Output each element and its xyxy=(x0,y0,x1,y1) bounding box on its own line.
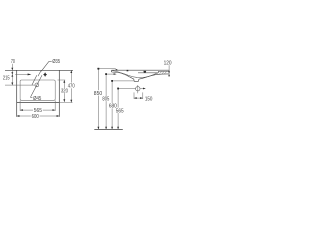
bottom dimension 600 xyxy=(17,115,31,117)
side view: rear hatching xyxy=(157,72,159,74)
svg-text:70: 70 xyxy=(11,59,15,65)
side view: front lip xyxy=(111,70,113,72)
drain centreline xyxy=(5,84,35,86)
side view: outer underside with drain stub xyxy=(112,72,170,81)
extension line to 320 dim xyxy=(58,79,66,81)
svg-text:Ø35: Ø35 xyxy=(52,59,60,65)
side view: deck step xyxy=(157,71,159,72)
tap hole centreline with right arrow xyxy=(15,73,30,75)
height dim 850 xyxy=(97,68,116,70)
side view: deck top line xyxy=(158,70,169,72)
dimension 150 at outlet xyxy=(133,92,135,99)
plan view: outer front edge with extension right xyxy=(17,102,60,104)
height dim 805 xyxy=(106,73,115,75)
right dimension 470 xyxy=(70,70,72,82)
svg-text:805: 805 xyxy=(102,96,109,102)
side view: tick front xyxy=(116,69,118,70)
svg-text:565: 565 xyxy=(116,108,124,114)
plan view: outer left edge with extension down xyxy=(16,70,18,117)
plan view: inner basin rim rounded rectangle xyxy=(20,80,55,100)
floor line xyxy=(94,128,123,130)
drain double slash xyxy=(32,75,37,85)
optional tap hole slash xyxy=(38,71,41,76)
leader for diameter 45 through drain xyxy=(31,75,42,97)
svg-text:320: 320 xyxy=(61,89,68,95)
side view: tap hole slot xyxy=(143,71,146,73)
svg-text:850: 850 xyxy=(94,91,102,97)
side view: deck underside line xyxy=(138,72,158,74)
leader for diameter 35 through tap hole xyxy=(41,61,49,71)
wall outlet centreline xyxy=(137,85,139,93)
dimension 120 at wall xyxy=(168,65,170,76)
height dim 680 xyxy=(112,80,134,82)
svg-text:Ø45: Ø45 xyxy=(33,96,41,102)
svg-text:215: 215 xyxy=(3,76,10,82)
plan view: inner left extension down xyxy=(19,100,21,111)
plan view: inner right extension down xyxy=(54,100,56,111)
side view: inner bowl profile xyxy=(112,71,158,78)
plan view: outer right edge with extension down xyxy=(58,70,60,117)
svg-text:150: 150 xyxy=(145,96,153,102)
right dimension 320 xyxy=(63,80,65,88)
left dimension line 70/215 xyxy=(11,64,13,85)
drain hole circle xyxy=(35,83,39,87)
bottom dimension 565 xyxy=(20,109,33,111)
side view: rim top line xyxy=(112,69,170,71)
side view: tick mid xyxy=(127,70,129,71)
svg-text:600: 600 xyxy=(32,114,39,120)
wall outlet circle xyxy=(136,87,140,91)
svg-text:120: 120 xyxy=(164,60,172,66)
tap hole star xyxy=(43,72,47,77)
height dim 565 wall xyxy=(118,88,135,90)
svg-text:470: 470 xyxy=(68,84,75,90)
plan view: rear edge line extended both sides xyxy=(5,69,73,71)
